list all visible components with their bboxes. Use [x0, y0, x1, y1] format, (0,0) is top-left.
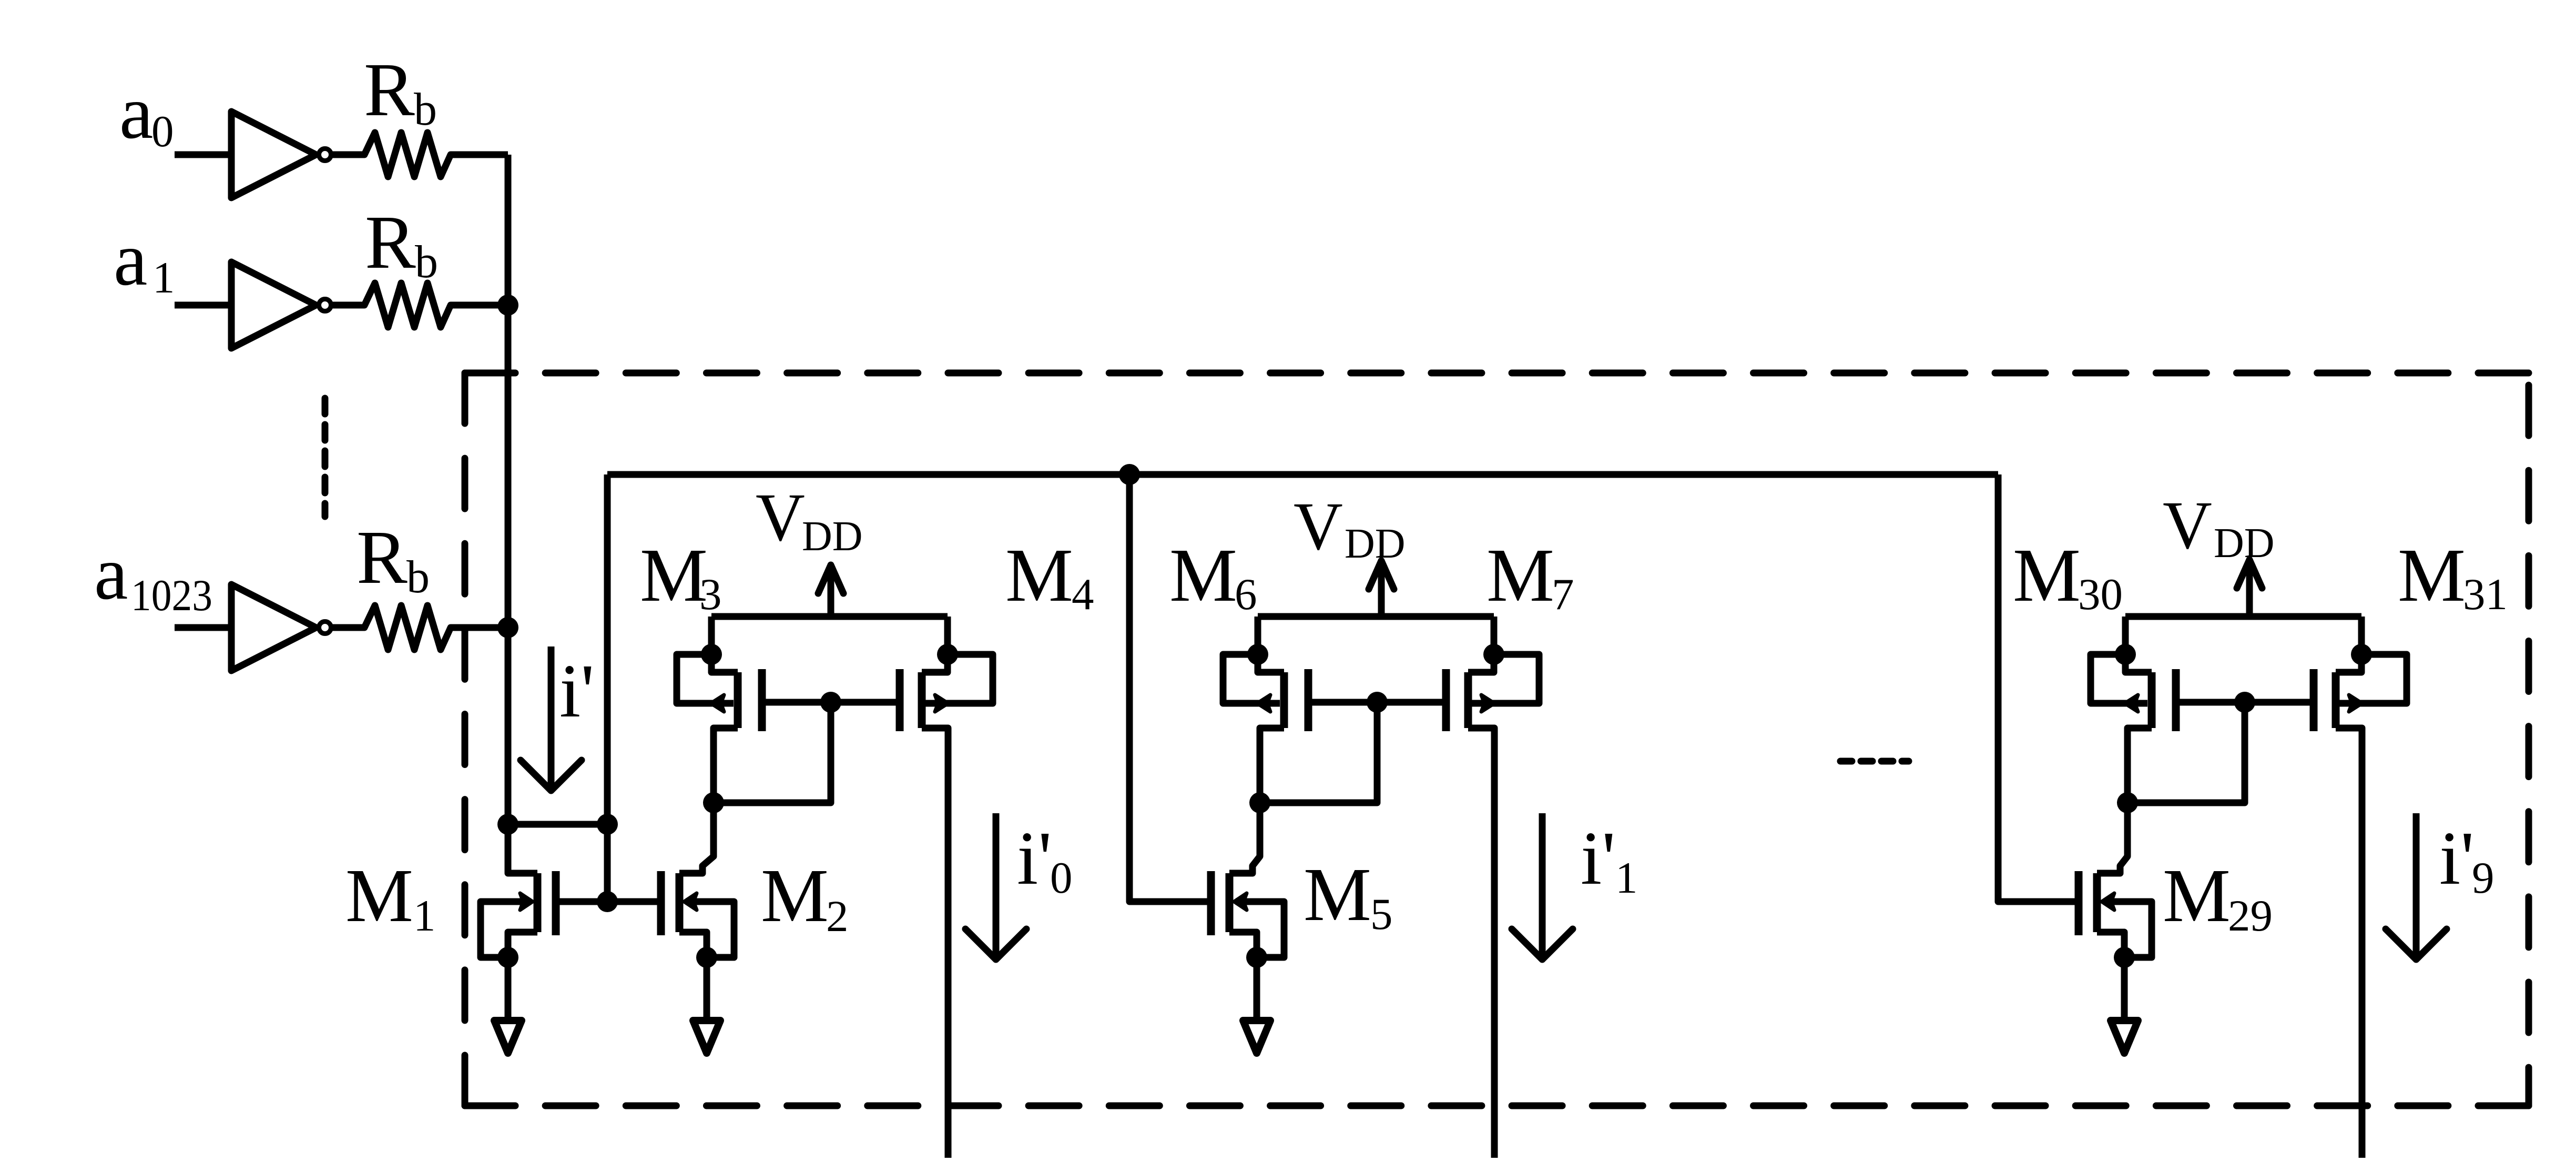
label M5 — [1304, 853, 1393, 939]
inverter input label a1 — [114, 217, 175, 302]
svg-text:b: b — [406, 552, 430, 603]
svg-text:4: 4 — [1072, 570, 1094, 619]
wire bias rail (gate bus) — [607, 471, 1998, 478]
transistor M30 (diode-connected PMOS) — [2091, 617, 2176, 803]
svg-text:V: V — [756, 480, 805, 555]
dashed box (DAC core boundary) — [465, 373, 2529, 1106]
transistor M3 (diode-connected PMOS) — [677, 617, 762, 803]
node M1-M2 gate junction — [597, 891, 618, 912]
svg-text:3: 3 — [699, 570, 722, 619]
svg-text:9: 9 — [2472, 853, 2494, 903]
svg-text:DD: DD — [1345, 521, 1406, 567]
transistor M5 (NMOS mirror) — [1211, 803, 1284, 957]
svg-text:29: 29 — [2228, 891, 2273, 941]
node M30 gate-drain tie — [2234, 692, 2255, 713]
svg-text:1: 1 — [152, 253, 175, 302]
inverter INV2 — [175, 262, 331, 348]
node M3 gate-drain tie — [820, 692, 841, 713]
svg-text:R: R — [365, 200, 416, 285]
VDD rail (M6/M7) — [1258, 613, 1494, 620]
current arrow i'0 — [965, 813, 1026, 959]
label M30 — [2013, 533, 2123, 619]
node M31 source — [2351, 644, 2372, 665]
inverter input label a1023 — [94, 531, 212, 620]
wire output i'1 — [1468, 728, 1494, 1158]
node M3 source — [701, 644, 722, 665]
svg-text:0: 0 — [151, 107, 174, 156]
wire gate M6-M7 — [1308, 699, 1446, 706]
svg-text:DD: DD — [2214, 520, 2275, 567]
label i'1 — [1581, 816, 1638, 903]
node M1 drain junction — [497, 814, 518, 835]
svg-text:V: V — [2163, 488, 2212, 563]
node M30 drain junction — [2117, 792, 2138, 813]
wire M6 diode connection — [1260, 702, 1377, 803]
label i'0 — [1017, 816, 1073, 903]
node M6 source — [1247, 644, 1268, 665]
power VDD symbol (M6/M7) — [1369, 561, 1394, 617]
label VDD (M30/M31) — [2163, 488, 2275, 567]
transistor M2 (NMOS mirror) — [661, 803, 734, 957]
svg-text:DD: DD — [802, 513, 863, 560]
wire gate M1-M2 — [556, 898, 661, 905]
svg-text:30: 30 — [2078, 570, 2123, 619]
svg-text:6: 6 — [1235, 570, 1257, 619]
inverter INV3 — [175, 584, 331, 671]
svg-text:M: M — [1304, 853, 1371, 937]
label M31 — [2398, 533, 2508, 619]
ellipsis (more stages) — [1840, 758, 1909, 765]
wire M30 diode connection — [2127, 702, 2245, 803]
ground (M1 source) — [494, 957, 522, 1053]
node bus-a1 junction — [497, 295, 518, 316]
svg-text:a: a — [114, 217, 147, 301]
svg-text:M: M — [345, 854, 413, 938]
node M5 source — [1246, 947, 1267, 968]
inverter INV1 — [175, 112, 331, 198]
ground (M29 source) — [2111, 957, 2138, 1053]
label M2 — [761, 854, 849, 941]
power VDD symbol (M3/M4) — [818, 565, 843, 617]
VDD rail (M30/M31) — [2125, 613, 2361, 620]
inverter input label a0 — [119, 70, 174, 156]
transistor M7 (PMOS mirror) — [1446, 617, 1539, 731]
wire rail to M1 diode node — [604, 474, 611, 902]
label i'9 — [2439, 816, 2494, 903]
ground (M5 source) — [1243, 957, 1270, 1053]
node M1 source — [497, 947, 518, 968]
svg-text:V: V — [1294, 489, 1343, 564]
current arrow i'9 — [2386, 813, 2447, 959]
node rail-stage2 junction — [1119, 464, 1140, 485]
transistor M31 (PMOS mirror) — [2314, 617, 2407, 731]
node M7 source — [1483, 644, 1504, 665]
resistor Rb (row 2) — [332, 283, 508, 327]
resistor Rb (row 3) — [332, 605, 508, 650]
ground (M2 source) — [693, 957, 720, 1053]
node M6 drain junction — [1249, 792, 1270, 813]
node M2 source — [696, 947, 717, 968]
svg-text:31: 31 — [2463, 570, 2508, 619]
svg-text:i': i' — [1017, 816, 1052, 901]
wire input bus vertical — [505, 155, 512, 824]
svg-text:M: M — [1169, 533, 1237, 618]
node bus-a1023 junction — [497, 617, 518, 638]
transistor M6 (diode-connected PMOS) — [1223, 617, 1308, 803]
vertical ellipsis (more inputs) — [322, 398, 329, 517]
svg-text:M: M — [1486, 533, 1554, 618]
wire M3 diode connection — [714, 702, 831, 803]
svg-text:7: 7 — [1552, 570, 1574, 619]
svg-text:0: 0 — [1050, 853, 1073, 903]
svg-text:M: M — [761, 854, 829, 938]
resistor Rb (row 2) value label — [365, 200, 438, 288]
svg-text:i': i' — [2439, 816, 2474, 901]
label M1 — [345, 854, 436, 941]
svg-text:M: M — [640, 533, 708, 618]
svg-text:M: M — [1005, 533, 1073, 618]
label VDD (M6/M7) — [1294, 489, 1406, 567]
wire gate M3-M4 — [762, 699, 900, 706]
label M3 — [640, 533, 722, 619]
wire gate M30-M31 — [2176, 699, 2314, 706]
wire output i'0 — [922, 728, 948, 1158]
label M29 — [2163, 854, 2273, 941]
label i' — [559, 649, 594, 733]
wire rail to M5 gate — [1129, 474, 1211, 902]
svg-text:i': i' — [1581, 816, 1615, 901]
VDD rail (M3/M4) — [711, 613, 948, 620]
svg-text:b: b — [414, 84, 437, 135]
svg-text:a: a — [94, 531, 128, 615]
resistor Rb (row 3) value label — [357, 516, 430, 603]
svg-text:2: 2 — [826, 892, 849, 941]
svg-text:1: 1 — [1615, 853, 1638, 903]
wire M1 drain to rail drop — [508, 821, 607, 828]
svg-text:i': i' — [559, 649, 594, 733]
svg-text:M: M — [2013, 533, 2081, 618]
label M7 — [1486, 533, 1574, 619]
svg-text:1023: 1023 — [131, 571, 212, 620]
node M30 source — [2115, 644, 2136, 665]
transistor M29 (NMOS mirror) — [2079, 803, 2152, 957]
node M3 drain junction — [703, 792, 724, 813]
svg-text:1: 1 — [413, 891, 436, 941]
resistor Rb (row 1) — [332, 133, 508, 177]
node M6 gate-drain tie — [1367, 692, 1388, 713]
power VDD symbol (M30/M31) — [2237, 560, 2262, 617]
svg-text:M: M — [2398, 533, 2466, 618]
node M29 source — [2114, 947, 2135, 968]
svg-text:a: a — [119, 70, 153, 155]
svg-text:M: M — [2163, 854, 2231, 938]
transistor M4 (PMOS mirror) — [900, 617, 993, 731]
resistor Rb (row 1) value label — [364, 48, 437, 135]
node rail drop junction — [597, 814, 618, 835]
current arrow i'1 — [1512, 813, 1573, 959]
wire rail to M29 gate — [1998, 474, 2079, 902]
svg-text:5: 5 — [1370, 890, 1393, 939]
current arrow i' — [521, 646, 582, 791]
transistor M1 (diode-connected NMOS) — [481, 824, 556, 957]
wire output i'9 — [2336, 728, 2362, 1158]
svg-text:R: R — [364, 48, 415, 132]
svg-text:R: R — [357, 516, 408, 600]
label M4 — [1005, 533, 1094, 619]
node M4 source — [937, 644, 958, 665]
label M6 — [1169, 533, 1257, 619]
label VDD (M3/M4) — [756, 480, 863, 560]
